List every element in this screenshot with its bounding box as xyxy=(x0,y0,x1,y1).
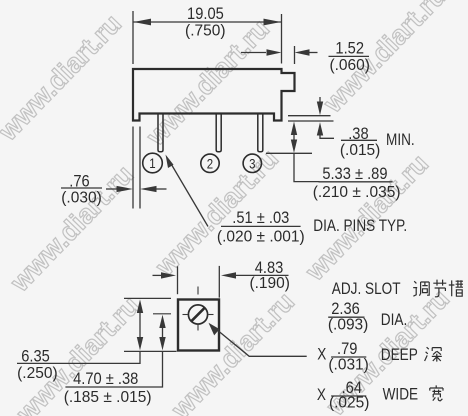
svg-text:(.093): (.093) xyxy=(328,317,369,334)
center ticks xyxy=(153,287,214,331)
svg-text:ADJ. SLOT: ADJ. SLOT xyxy=(332,280,401,299)
svg-text:(.250): (.250) xyxy=(17,365,58,382)
pin number circle 3 xyxy=(243,154,261,172)
svg-text:.51 ± .03: .51 ± .03 xyxy=(232,209,289,227)
X .79 DEEP xyxy=(331,356,366,358)
slot leader xyxy=(216,329,307,356)
svg-text:2: 2 xyxy=(207,156,213,171)
dimension 1.52 tab xyxy=(241,46,369,64)
svg-text:DIA.: DIA. xyxy=(381,311,407,330)
svg-text:1.52: 1.52 xyxy=(335,40,364,58)
hanzi tiao jie cao xyxy=(413,280,463,297)
end view square xyxy=(178,300,219,351)
svg-text:3: 3 xyxy=(249,156,255,171)
hanzi kuan xyxy=(430,385,443,400)
svg-text:DIA. PINS TYP.: DIA. PINS TYP. xyxy=(313,217,407,236)
X .64 WIDE xyxy=(331,395,366,397)
slot line xyxy=(191,308,205,322)
dimension 4.70 xyxy=(65,328,162,387)
svg-text:1: 1 xyxy=(149,156,155,171)
svg-text:.76: .76 xyxy=(69,173,89,191)
svg-text:WIDE: WIDE xyxy=(383,385,418,404)
pin 3 xyxy=(258,114,263,152)
svg-text:X: X xyxy=(317,386,326,405)
pin number circle 2 xyxy=(201,154,219,172)
dimension 6.35 xyxy=(17,298,177,363)
dimension .76 foot width xyxy=(61,127,167,209)
svg-text:(.015): (.015) xyxy=(340,142,381,159)
dimension 19.05 width xyxy=(133,11,282,64)
svg-text:19.05: 19.05 xyxy=(187,5,224,23)
pin 2 xyxy=(216,114,221,152)
trimmer body (side view) xyxy=(133,69,295,121)
svg-text:(.030): (.030) xyxy=(61,190,102,207)
pin number circle 1 xyxy=(143,153,163,173)
svg-text:(.190): (.190) xyxy=(249,275,290,292)
svg-text:MIN.: MIN. xyxy=(386,131,415,150)
svg-text:(.750): (.750) xyxy=(185,23,226,40)
svg-text:(.031): (.031) xyxy=(328,357,369,374)
dimension .38 MIN standoff xyxy=(288,97,377,140)
svg-text:X: X xyxy=(317,345,326,364)
svg-text:.38: .38 xyxy=(348,125,368,143)
svg-text:DEEP: DEEP xyxy=(381,346,418,365)
pin 1 xyxy=(158,114,163,152)
dimension 5.33 pin length xyxy=(266,130,393,182)
svg-text:5.33 ± .89: 5.33 ± .89 xyxy=(322,165,387,183)
svg-text:(.025): (.025) xyxy=(329,395,370,412)
svg-text:(.020 ± .001): (.020 ± .001) xyxy=(217,229,305,246)
leader pin dia xyxy=(169,160,209,227)
dimension 4.83 xyxy=(153,266,289,298)
svg-text:(.210 ± .035): (.210 ± .035) xyxy=(313,184,401,201)
svg-text:(.185 ± .015): (.185 ± .015) xyxy=(64,389,152,406)
svg-text:(.060): (.060) xyxy=(329,57,370,74)
svg-text:4.70 ± .38: 4.70 ± .38 xyxy=(73,370,138,388)
2.36 DIA xyxy=(328,316,364,318)
adjustment slot circle xyxy=(188,305,207,324)
svg-text:6.35: 6.35 xyxy=(21,348,50,366)
hanzi shen xyxy=(425,347,442,361)
